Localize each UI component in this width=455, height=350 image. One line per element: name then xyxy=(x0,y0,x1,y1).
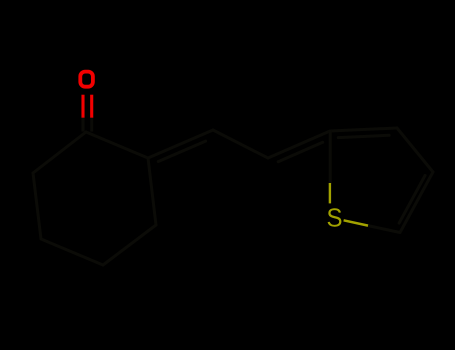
chain xyxy=(148,130,330,162)
bond CHb=CHc main line xyxy=(268,131,330,158)
bond C4'=C5' inner line xyxy=(399,175,425,223)
bond S-C2' dark half near C2' xyxy=(329,131,332,183)
bond CHb=CHc inner line xyxy=(278,142,323,161)
bond C4-C5 xyxy=(41,239,103,265)
bond S-C5' yellow half near S xyxy=(344,220,368,225)
bond S-C5' dark half near C5' xyxy=(368,226,400,233)
svg-text:S: S xyxy=(326,202,342,232)
thiophene ring xyxy=(330,128,433,233)
cyclohexanone ring xyxy=(33,132,156,265)
bond C1=O double bond, red halves near O xyxy=(83,95,92,118)
bond C2-C3 xyxy=(148,158,156,225)
bond C2=CHa inner line xyxy=(158,141,205,161)
bond C2=CHa main line xyxy=(148,130,213,158)
bond C3-C4 xyxy=(103,225,156,265)
bond C4'-C5' main xyxy=(400,172,433,233)
atom O (carbonyl oxygen label) xyxy=(80,72,93,87)
bond C1=O double bond, dark halves near C1 xyxy=(83,118,92,132)
bond C5-C6 xyxy=(33,173,41,239)
bond C2'-C3' main xyxy=(330,128,397,131)
bond C2'=C3' inner line xyxy=(338,135,389,137)
bond C6-C1 xyxy=(33,132,86,173)
bond S-C2' yellow half near S xyxy=(329,183,331,203)
bond C3'-C4' xyxy=(397,128,433,172)
bond C1-C2 xyxy=(86,132,148,158)
bond CHa-CHb xyxy=(213,130,268,158)
